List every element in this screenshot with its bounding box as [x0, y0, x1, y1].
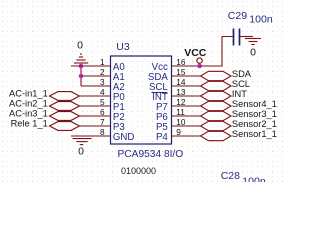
svg-text:AC-in3_1: AC-in3_1: [9, 108, 48, 118]
port Sensor2_1: [201, 119, 277, 131]
svg-text:100n: 100n: [242, 175, 266, 182]
pin 10: [172, 117, 201, 127]
svg-text:0: 0: [77, 40, 83, 52]
svg-text:AC-in2_1: AC-in2_1: [9, 98, 48, 108]
pin 5: [80, 97, 111, 107]
pin 4: [80, 87, 111, 97]
pin 12: [172, 97, 201, 107]
svg-text:12: 12: [176, 97, 186, 107]
IC U3 body: [111, 41, 184, 176]
svg-text:VCC: VCC: [184, 47, 207, 59]
pin 3: [81, 77, 111, 87]
svg-text:15: 15: [176, 67, 186, 77]
port AC-in1_1: [9, 88, 79, 100]
svg-text:C29: C29: [228, 10, 247, 22]
svg-text:SCL: SCL: [232, 79, 250, 89]
port AC-in3_1: [9, 108, 79, 120]
svg-text:11: 11: [176, 107, 185, 117]
svg-text:4: 4: [100, 87, 105, 97]
overline of INT pin name: [152, 92, 168, 94]
svg-text:5: 5: [100, 97, 105, 107]
svg-text:Sensor4_1: Sensor4_1: [232, 99, 277, 109]
ground 0 (top-left, flipped up): [74, 54, 88, 63]
pin 9: [172, 127, 201, 137]
svg-text:C28: C28: [221, 170, 240, 182]
svg-text:13: 13: [176, 87, 186, 97]
pin 15: [172, 67, 201, 77]
port Sensor4_1: [201, 99, 277, 111]
pin 2: [81, 67, 111, 77]
svg-text:0100000: 0100000: [121, 166, 156, 176]
pin 7: [80, 117, 111, 127]
svg-text:2: 2: [100, 67, 105, 77]
ground 0 (bottom-left): [73, 139, 92, 145]
wire capacitor to ground: [247, 36, 253, 38]
pin 16 Vcc: [172, 57, 200, 67]
port AC-in2_1: [9, 98, 79, 110]
pin 14: [172, 77, 201, 87]
svg-text:Sensor3_1: Sensor3_1: [232, 109, 277, 119]
svg-text:0: 0: [250, 47, 256, 59]
port Sensor1_1: [201, 129, 277, 141]
svg-text:1: 1: [100, 57, 105, 67]
port SCL: [201, 79, 250, 91]
port Rele 1_1: [11, 118, 80, 130]
svg-text:0: 0: [78, 146, 84, 158]
pin 13: [172, 87, 201, 97]
pin names right column: [148, 62, 169, 143]
wire ground net to pins 1-3 (vertical): [80, 66, 82, 86]
wire VCC net to capacitor C29: [200, 37, 233, 67]
svg-text:14: 14: [176, 77, 186, 87]
svg-text:Rele 1_1: Rele 1_1: [11, 118, 48, 128]
junction at pin2 wire: [79, 74, 84, 79]
pin 1: [71, 57, 111, 67]
svg-text:U3: U3: [116, 41, 130, 53]
svg-text:9: 9: [176, 127, 181, 137]
junction at pin1 wire: [79, 64, 84, 69]
capacitor C29: [234, 29, 248, 46]
svg-text:6: 6: [100, 107, 105, 117]
port INT: [201, 89, 248, 101]
svg-text:8: 8: [100, 127, 105, 137]
svg-text:7: 7: [100, 117, 105, 127]
svg-text:Sensor2_1: Sensor2_1: [232, 119, 277, 129]
pin 6: [80, 107, 111, 117]
port Sensor3_1: [201, 109, 277, 121]
pin names left column: [113, 62, 135, 143]
port SDA: [201, 69, 252, 81]
svg-text:PCA9534 8I/O: PCA9534 8I/O: [118, 149, 184, 160]
svg-text:3: 3: [100, 77, 105, 87]
VCC power symbol: [184, 47, 207, 66]
ground 0 (top-right at C29): [245, 39, 261, 45]
svg-text:Sensor1_1: Sensor1_1: [232, 129, 277, 139]
svg-text:P4: P4: [156, 132, 168, 143]
svg-text:AC-in1_1: AC-in1_1: [9, 88, 48, 98]
pin 11: [172, 107, 201, 117]
svg-text:100n: 100n: [249, 13, 273, 25]
svg-text:INT: INT: [232, 89, 247, 99]
junction at VCC: [197, 64, 202, 69]
svg-text:SDA: SDA: [232, 69, 252, 79]
svg-text:GND: GND: [113, 132, 135, 143]
pin 8 GND: [71, 127, 111, 137]
svg-text:10: 10: [176, 117, 186, 127]
